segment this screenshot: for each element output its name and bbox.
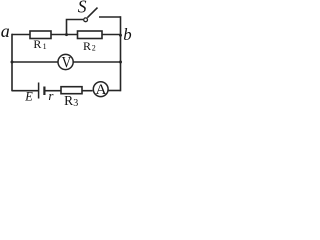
svg-text:1: 1: [43, 42, 47, 51]
svg-text:R: R: [64, 93, 73, 108]
svg-text:E: E: [24, 90, 33, 104]
svg-text:a: a: [1, 21, 10, 41]
svg-text:2: 2: [92, 44, 96, 53]
svg-text:V: V: [62, 55, 72, 72]
svg-text:R: R: [83, 39, 91, 53]
svg-text:R: R: [33, 37, 41, 51]
svg-text:3: 3: [73, 98, 78, 109]
svg-text:b: b: [123, 25, 131, 44]
svg-text:A: A: [96, 81, 107, 98]
svg-text:S: S: [78, 0, 87, 17]
